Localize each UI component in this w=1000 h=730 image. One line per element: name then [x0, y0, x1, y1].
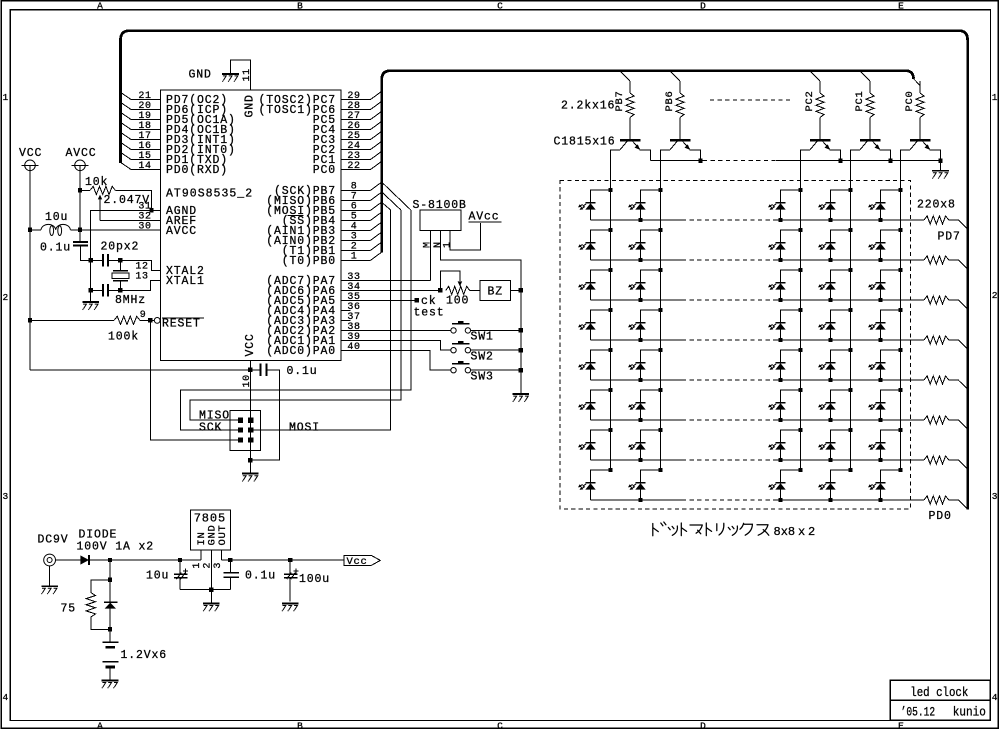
U2 pin N stem + name	[440, 231, 521, 394]
svg-text:0.1u: 0.1u	[287, 365, 318, 378]
svg-text:1.2Vx6: 1.2Vx6	[121, 649, 168, 662]
pin 14 PD0(RXD) (left stub + bus entry)	[131, 169, 161, 171]
svg-text:7805: 7805	[194, 512, 226, 526]
wire 10k to AGND node	[115, 190, 151, 210]
pin 20 PD6(ICP) (left stub + bus entry)	[131, 109, 161, 111]
ISP connector CN2 body	[230, 411, 261, 451]
pin 6 (MOSI)PB5 (right stub + bus entry)	[341, 209, 371, 211]
U2 pin 1 stem + name	[450, 223, 480, 250]
junction crystal top	[118, 258, 122, 262]
VCC supply symbol	[25, 160, 36, 171]
svg-text:test: test	[414, 307, 445, 320]
svg-text:E: E	[898, 721, 904, 730]
matrix row wire 4 (y=340)	[591, 339, 683, 341]
svg-text:100: 100	[446, 294, 469, 307]
svg-text:VCC: VCC	[244, 333, 257, 356]
inductor L1 10u	[41, 224, 70, 229]
ground symbol at switch rail	[513, 393, 530, 395]
svg-text:10k: 10k	[85, 176, 108, 189]
wire xtal rail to ground	[90, 290, 92, 302]
svg-text:OUT: OUT	[217, 524, 229, 545]
switch SW1	[452, 323, 469, 325]
ground stem J1	[49, 566, 51, 586]
svg-text:A: A	[97, 0, 103, 11]
svg-text:2.047V: 2.047V	[104, 194, 151, 207]
junction VCC/100k	[28, 318, 32, 322]
IC U1 AT90S8535 body	[161, 90, 342, 360]
svg-text:GND: GND	[189, 69, 212, 82]
junction LED col850.5 on row wire	[828, 418, 832, 422]
LED cell col610.5 row-dot y350	[608, 348, 612, 352]
junction LED col660.5 on row wire	[638, 218, 642, 222]
ground rail under 7805	[180, 589, 230, 591]
wire J1 to diode	[56, 559, 81, 561]
pin 16 PD2(INT0) (left stub + bus entry)	[131, 149, 161, 151]
junction LED col850.5 on row wire	[828, 218, 832, 222]
crystal X1	[119, 260, 121, 270]
svg-text:(ADC0)PA0: (ADC0)PA0	[266, 345, 336, 358]
matrix row wire 1 (y=220)	[591, 219, 683, 221]
svg-text:x: x	[798, 525, 805, 539]
svg-text:C1815x16: C1815x16	[554, 136, 616, 149]
LED cell col900.5 row-dot y310	[898, 308, 902, 312]
wire 0.1u to ISP ground loop	[250, 370, 279, 460]
LED matrix dashed box	[560, 180, 910, 509]
pin 25 PC3 (right stub + bus entry)	[341, 139, 371, 141]
resistor 2.2k at PC0	[919, 81, 921, 93]
bus entry row 4	[949, 339, 959, 341]
junction 10k/AGND wire	[149, 208, 153, 212]
junction SW1/gnd rail	[519, 328, 523, 332]
pin 4 (AIN1)PB3 (right stub + bus entry)	[341, 229, 371, 231]
junction crystal bottom	[118, 288, 122, 292]
svg-text:40: 40	[347, 342, 360, 353]
junction battery bottom	[108, 627, 112, 631]
resistor R3 100k	[114, 316, 140, 324]
junction D1 node	[108, 558, 112, 562]
LED cell col660.5 row-dot y230	[658, 228, 662, 232]
svg-text:1: 1	[443, 241, 454, 248]
LED cell col610.5 row-dot y310	[608, 308, 612, 312]
resistor 220 row 2	[924, 256, 949, 264]
junction AGND rail / xtal cap rail	[89, 258, 93, 262]
wire BZ to gnd rail	[511, 289, 521, 291]
svg-text:10u: 10u	[146, 569, 169, 582]
svg-text:220x8: 220x8	[917, 198, 956, 211]
bus exits for SCK MISO MOSI	[382, 182, 411, 210]
diode D2 (battery)	[104, 601, 118, 603]
bus exit to PC2 driver	[811, 72, 820, 81]
resistor 220 row 8	[924, 496, 949, 504]
pin 5 (SS)PB4 (right stub + bus entry)	[341, 219, 371, 221]
transistor Q PC2 (C1815)	[810, 139, 830, 142]
svg-text:RESET: RESET	[162, 317, 201, 330]
svg-text:PC1: PC1	[854, 90, 866, 111]
svg-text:PB7: PB7	[614, 90, 626, 111]
matrix row wire 5 (y=380)	[591, 379, 683, 381]
junction LED col660.5 on row wire	[638, 498, 642, 502]
LED cell col850.5 row-dot y470	[848, 468, 852, 472]
wire 0.1u to cap rail	[81, 246, 91, 261]
collector wire PB6	[661, 150, 671, 190]
svg-text:3: 3	[3, 491, 9, 502]
junction AVCC/10k	[78, 188, 82, 192]
collector wire PC0	[901, 150, 911, 190]
collector wire PC2	[801, 150, 811, 190]
svg-text:22: 22	[347, 161, 360, 172]
wire diode to 7805	[89, 559, 201, 561]
transistor Q PC0 (C1815)	[910, 139, 930, 142]
emitter wire PC0	[930, 150, 941, 161]
wire 7805 OUT to Vcc flag	[222, 559, 344, 561]
wire VCC to pin10	[30, 369, 250, 371]
LED cell col660.5 row-dot y470	[658, 468, 662, 472]
matrix row wire 2 (y=260)	[591, 259, 683, 261]
emitter wire PB6	[690, 150, 701, 161]
LED cell col660.5 row-dot y350	[658, 348, 662, 352]
bus exit to PC1 driver	[861, 72, 870, 81]
capacitor C5 10u electrolytic	[179, 560, 181, 574]
svg-text:14: 14	[138, 161, 151, 172]
junction LED col900.5 on row wire	[878, 338, 882, 342]
junction emitter PC0	[938, 158, 942, 162]
collector wire PB7	[611, 150, 621, 190]
resistor 220 row 4	[924, 336, 949, 344]
LED cell col610.5 row-dot y190	[608, 188, 612, 192]
switch SW3	[452, 363, 469, 365]
LED cell col610.5 row-dot y470	[608, 468, 612, 472]
LED cell col800.5 row-dot y230	[798, 228, 802, 232]
svg-text:0.1u: 0.1u	[245, 569, 276, 582]
pin 23 PC1 (right stub + bus entry)	[341, 159, 371, 161]
svg-text:13: 13	[135, 271, 148, 282]
resistor 220 row 5	[924, 376, 949, 384]
LED cell col660.5 row-dot y430	[658, 428, 662, 432]
svg-text:1: 1	[192, 562, 203, 569]
wire SW2 to ground rail	[471, 349, 521, 351]
svg-text:3: 3	[213, 562, 224, 569]
junction LED col660.5 on row wire	[638, 378, 642, 382]
bus entry row 1	[949, 219, 959, 221]
svg-text:100V 1A x2: 100V 1A x2	[77, 540, 155, 553]
wire cap rail to C3	[91, 260, 103, 290]
matrix column wire PC0	[900, 190, 902, 470]
pin 18 PD4(OC1B) (left stub + bus entry)	[131, 129, 161, 131]
junction C6 top	[228, 558, 232, 562]
svg-text:20px2: 20px2	[101, 241, 140, 254]
svg-text:4: 4	[3, 692, 9, 703]
LED cell col800.5 row-dot y430	[798, 428, 802, 432]
matrix column wire PC1	[850, 190, 852, 470]
svg-text:PD0(RXD): PD0(RXD)	[166, 164, 228, 177]
resistor 220 row 6	[924, 416, 949, 424]
resistor R5 75 loop	[91, 580, 110, 593]
junction LED col900.5 on row wire	[878, 498, 882, 502]
junction VCC/10u	[28, 228, 32, 232]
resistor 220 row 3	[924, 296, 949, 304]
junction LED col850.5 on row wire	[828, 298, 832, 302]
LED cell col850.5 row-dot y430	[848, 428, 852, 432]
U3 pin stems	[200, 550, 202, 560]
wire C3 to pin 13 XTAL1	[108, 289, 120, 291]
wire down to battery branch	[109, 560, 111, 629]
wire cap rail to C2	[91, 259, 103, 261]
resistor 2.2k at PB7	[629, 81, 631, 93]
wire VCC rail down	[29, 165, 31, 369]
buzzer BZ body	[480, 281, 511, 301]
wire SCK loop (PB7 to ISP)	[181, 210, 411, 430]
svg-text:A: A	[97, 721, 103, 730]
wire pin40 PA0 to SW3	[341, 350, 451, 370]
svg-text:SW3: SW3	[471, 370, 494, 383]
junction LED col800.5 on row wire	[778, 378, 782, 382]
svg-text:PC0: PC0	[904, 90, 916, 111]
LED cell col850.5 row-dot y390	[848, 388, 852, 392]
LED cell col800.5 row-dot y190	[798, 188, 802, 192]
pin 11 top stem and wire to ground	[231, 60, 251, 90]
wire SW3 to ground rail	[471, 369, 521, 371]
svg-text:XTAL1: XTAL1	[166, 275, 205, 288]
svg-text:PB6: PB6	[664, 90, 676, 111]
svg-text:BZ: BZ	[488, 286, 504, 299]
wire ISP ground stem	[249, 460, 251, 473]
svg-text:C: C	[497, 0, 503, 11]
junction C7 top	[288, 558, 292, 562]
resistor 2.2k at PB6	[679, 81, 681, 93]
caption dot-matrix 8x8 x 2 (katakana, hand drawn)	[653, 522, 769, 536]
LED cell col900.5 row-dot y190	[898, 188, 902, 192]
svg-text:4: 4	[992, 692, 998, 703]
svg-text:2: 2	[202, 562, 213, 569]
transistor Q PB6 (C1815)	[670, 139, 690, 142]
LED cell col900.5 row-dot y230	[898, 228, 902, 232]
bus entry row 2	[949, 259, 959, 261]
ground symbol at 7805	[210, 590, 212, 604]
junction LED col800.5 on row wire	[778, 258, 782, 262]
svg-text:AT90S8535_2: AT90S8535_2	[166, 188, 253, 201]
svg-text:M: M	[423, 241, 434, 248]
wire VCC rail to 100k	[30, 319, 114, 321]
bus B1 (PD bus left vertical + top horizontal + right vertical)	[121, 31, 968, 510]
pin 17 PD3(INT1) (left stub + bus entry)	[131, 139, 161, 141]
svg-text:10: 10	[242, 374, 253, 387]
svg-text:100u: 100u	[299, 573, 330, 586]
junction 7805 GND	[209, 587, 213, 591]
svg-text:1: 1	[3, 92, 9, 103]
battery top wire	[109, 629, 111, 642]
capacitor C7 100u electrolytic	[289, 560, 291, 574]
ground symbol at battery	[102, 679, 119, 681]
pin 19 PD5(OC1A) (left stub + bus entry)	[131, 119, 161, 121]
svg-text:30: 30	[138, 222, 151, 233]
svg-text:S-8100B: S-8100B	[413, 199, 467, 212]
matrix row wire 3 (y=300)	[591, 299, 683, 301]
pin 21 PD7(OC2) (left stub + bus entry)	[131, 99, 161, 101]
svg-text:2: 2	[992, 290, 998, 301]
ground symbol at pin 11	[222, 73, 239, 75]
junction LED col900.5 on row wire	[878, 218, 882, 222]
wire AVCC rail down	[79, 165, 81, 242]
svg-text:AVCC: AVCC	[66, 147, 97, 160]
pin 1 (T0)PB0 (right stub + bus entry)	[341, 259, 371, 261]
pin 3 (AIN0)PB2 (right stub + bus entry)	[341, 239, 371, 241]
svg-text:E: E	[898, 0, 904, 11]
wire pin39 PA1 to SW2	[341, 340, 451, 350]
LED cell col900.5 row-dot y270	[898, 268, 902, 272]
pin 9 inversion bubble	[154, 318, 160, 324]
wire AGND pin31	[91, 210, 161, 260]
matrix column wire PB6	[660, 190, 662, 470]
svg-text:B: B	[297, 0, 303, 11]
junction BZ/gnd rail	[519, 288, 523, 292]
svg-text:GND: GND	[244, 94, 257, 117]
svg-text:0.1u: 0.1u	[40, 242, 71, 255]
svg-text:75: 75	[61, 602, 77, 615]
LED cell col610.5 row-dot y390	[608, 388, 612, 392]
svg-text:PC2: PC2	[804, 90, 816, 111]
svg-text:2: 2	[808, 525, 815, 539]
matrix row wire 6 (y=420)	[591, 419, 683, 421]
junction LED col850.5 on row wire	[828, 258, 832, 262]
junction emitter PC2	[838, 158, 842, 162]
pin 36 stub (n.c.)	[341, 309, 351, 311]
svg-text:3: 3	[992, 491, 998, 502]
junction LED col800.5 on row wire	[778, 218, 782, 222]
junction ISP ground	[248, 458, 252, 462]
overline on SS of (SS)PB4	[288, 215, 304, 217]
wire to pin 12 XTAL2	[120, 260, 160, 270]
connector J1 DC9V	[44, 554, 56, 566]
svg-text:9: 9	[140, 310, 147, 321]
svg-text:Vcc: Vcc	[347, 556, 368, 568]
junction at 100 ohm	[438, 288, 442, 292]
pin 24 PC2 (right stub + bus entry)	[341, 149, 371, 151]
switch SW2	[452, 343, 469, 345]
svg-text:AVCC: AVCC	[166, 225, 197, 238]
svg-text:SW1: SW1	[471, 331, 494, 344]
svg-text:’05.12: ’05.12	[901, 705, 936, 719]
wire pin38 PA2 to SW1	[341, 329, 451, 331]
junction LED col660.5 on row wire	[638, 298, 642, 302]
wire C2 to crystal node	[108, 259, 120, 261]
dashed continuation between drivers	[710, 99, 790, 101]
wire 100 to BZ	[470, 289, 480, 291]
LED cell col660.5 row-dot y390	[658, 388, 662, 392]
junction LED col660.5 on row wire	[638, 338, 642, 342]
matrix column wire PC2	[800, 190, 802, 470]
junction C3 left	[89, 288, 93, 292]
svg-text:VCC: VCC	[19, 147, 42, 160]
capacitor C3 20p (bottom)	[102, 284, 104, 296]
svg-text:8x8: 8x8	[774, 525, 796, 539]
wire MOSI loop (PB5 to ISP)	[253, 210, 390, 430]
svg-text:2: 2	[3, 292, 9, 303]
bus exit to PB7 driver	[621, 72, 630, 81]
wire inductor to AVCC node	[70, 229, 80, 231]
LED cell col660.5 row-dot y190	[658, 188, 662, 192]
junction LED col800.5 on row wire	[778, 298, 782, 302]
resistor R2 10k	[90, 186, 115, 194]
wire AREF pin32	[100, 219, 161, 221]
svg-text:PD7: PD7	[938, 231, 961, 244]
net flag Vcc (output)	[344, 556, 380, 566]
battery ground stem	[109, 667, 111, 680]
pin 29 (TOSC2)PC7 (right stub + bus entry)	[341, 99, 371, 101]
collector wire PC1	[851, 150, 861, 190]
junction C5 top	[178, 558, 182, 562]
junction LED col900.5 on row wire	[878, 258, 882, 262]
battery BT1 1.2Vx6	[103, 641, 119, 643]
junction LED col660.5 on row wire	[638, 258, 642, 262]
emitter wire PB7	[640, 150, 651, 161]
resistor 2.2k at PC2	[819, 81, 821, 93]
svg-text:MOSI: MOSI	[289, 421, 320, 434]
wire pin10 to 0.1u	[250, 369, 260, 371]
LED cell col900.5 row-dot y430	[898, 428, 902, 432]
pin 2 (T1)PB1 (right stub + bus entry)	[341, 249, 371, 251]
junction LED col850.5 on row wire	[828, 458, 832, 462]
LED cell col610.5 row-dot y270	[608, 268, 612, 272]
wire 100k to RESET pin	[140, 319, 154, 321]
LED cell col800.5 row-dot y350	[798, 348, 802, 352]
bus entry row 6	[949, 419, 959, 421]
LED cell col900.5 row-dot y470	[898, 468, 902, 472]
LED cell col610.5 row-dot y230	[608, 228, 612, 232]
svg-text:2.2kx16: 2.2kx16	[561, 99, 615, 112]
pin 28 (TOSC1)PC6 (right stub + bus entry)	[341, 109, 371, 111]
junction LED col800.5 on row wire	[778, 338, 782, 342]
LED cell col900.5 row-dot y350	[898, 348, 902, 352]
junction LED col900.5 on row wire	[878, 298, 882, 302]
ground symbol at emitter rail	[940, 161, 942, 171]
pin 7 (MISO)PB6 (right stub + bus entry)	[341, 199, 371, 201]
regulator U3 7805 body	[190, 510, 230, 550]
transistor Q PC1 (C1815)	[860, 139, 880, 142]
pin 27 PC5 (right stub + bus entry)	[341, 119, 371, 121]
wire RESET to ISP connector	[150, 320, 238, 440]
svg-text:11: 11	[242, 68, 253, 81]
LED cell col850.5 row-dot y230	[848, 228, 852, 232]
svg-text:SCK: SCK	[199, 421, 222, 434]
junction pin10/0.1u	[248, 368, 252, 372]
svg-text:D: D	[700, 721, 706, 730]
junction LED col660.5 on row wire	[638, 458, 642, 462]
junction LED col850.5 on row wire	[828, 378, 832, 382]
svg-text:(T0)PB0: (T0)PB0	[282, 255, 336, 268]
pin 10 bottom stem	[249, 360, 251, 369]
capacitor C2 20p (top)	[102, 254, 104, 266]
IC U2 S-8100B body	[420, 210, 461, 231]
matrix row wire 7 (y=460)	[591, 459, 683, 461]
svg-text:led clock: led clock	[910, 686, 968, 700]
title block box	[890, 680, 990, 720]
pin 37 stub (n.c.)	[341, 319, 351, 321]
capacitor C1 0.1u (AVCC decoupling)	[73, 241, 88, 243]
pin 26 PC4 (right stub + bus entry)	[341, 129, 371, 131]
wire VCC to inductor	[30, 229, 41, 231]
svg-text:10u: 10u	[45, 211, 68, 224]
svg-text:C: C	[497, 721, 503, 730]
svg-text:100k: 100k	[108, 331, 139, 344]
junction LED col900.5 on row wire	[878, 378, 882, 382]
junction LED col900.5 on row wire	[878, 418, 882, 422]
wire SW1 to ground rail	[471, 329, 521, 331]
junction SW2/gnd rail	[519, 348, 523, 352]
svg-text:B: B	[297, 721, 303, 730]
bus entry row 8	[949, 499, 959, 501]
bus entry row 5	[949, 379, 959, 381]
ground symbol at crystal	[82, 301, 99, 303]
